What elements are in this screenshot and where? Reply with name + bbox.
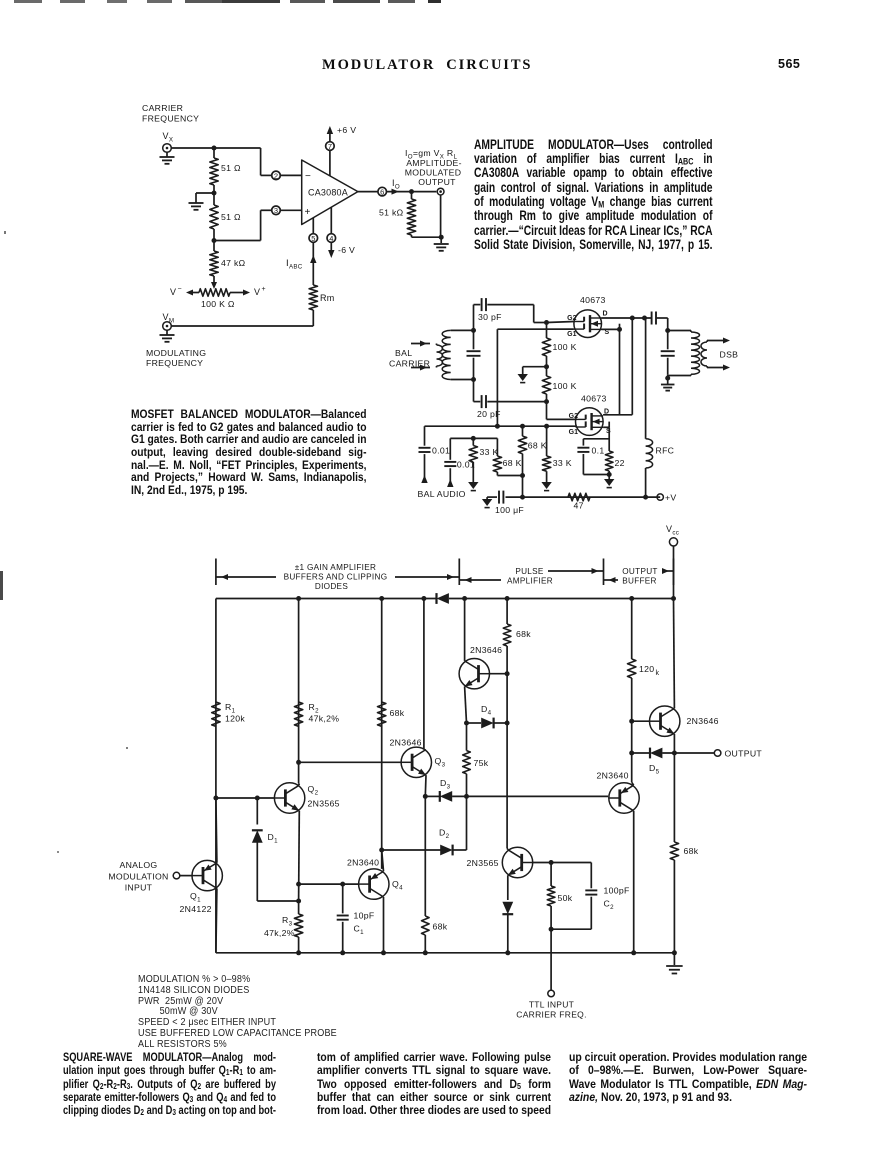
svg-text:D5: D5 xyxy=(649,763,660,775)
svg-text:C1: C1 xyxy=(354,924,365,936)
svg-text:47k,2%: 47k,2% xyxy=(309,714,340,724)
svg-text:50k: 50k xyxy=(558,893,573,903)
svg-text:0.1: 0.1 xyxy=(592,446,605,456)
svg-text:Q4: Q4 xyxy=(392,879,403,891)
svg-text:68k: 68k xyxy=(516,629,531,639)
svg-text:40673: 40673 xyxy=(581,394,607,404)
svg-text:OUTPUT: OUTPUT xyxy=(725,749,763,759)
svg-text:Q2: Q2 xyxy=(308,784,319,796)
svg-text:MODULATION: MODULATION xyxy=(108,871,168,881)
svg-text:4: 4 xyxy=(329,234,333,243)
svg-text:2N3640: 2N3640 xyxy=(347,858,379,868)
svg-text:2N3640: 2N3640 xyxy=(597,771,629,781)
svg-text:CARRIER FREQ.: CARRIER FREQ. xyxy=(516,1010,587,1020)
svg-text:OUTPUT: OUTPUT xyxy=(622,567,657,576)
svg-text:FREQUENCY: FREQUENCY xyxy=(142,114,199,124)
svg-text:OUTPUT: OUTPUT xyxy=(418,177,456,187)
svg-text:68k: 68k xyxy=(390,708,405,718)
svg-text:68 K: 68 K xyxy=(503,458,522,468)
svg-text:Q1: Q1 xyxy=(190,891,201,903)
svg-text:IABC: IABC xyxy=(286,258,303,270)
svg-text:RFC: RFC xyxy=(656,446,675,456)
svg-text:D2: D2 xyxy=(439,828,450,840)
svg-text:G1: G1 xyxy=(569,429,578,436)
svg-text:−: − xyxy=(178,286,182,293)
svg-text:D4: D4 xyxy=(481,704,492,716)
svg-text:51 Ω: 51 Ω xyxy=(221,212,241,222)
svg-text:PULSE: PULSE xyxy=(515,567,544,576)
svg-text:MODULATING: MODULATING xyxy=(146,348,206,358)
svg-text:2N3565: 2N3565 xyxy=(467,858,499,868)
svg-text:BUFFER: BUFFER xyxy=(622,577,657,586)
svg-text:47k,2%: 47k,2% xyxy=(264,928,295,938)
svg-text:+V: +V xyxy=(665,492,676,502)
svg-text:VX: VX xyxy=(163,131,174,143)
svg-text:DSB: DSB xyxy=(720,350,739,360)
svg-text:D: D xyxy=(603,311,608,318)
svg-text:k: k xyxy=(656,670,660,677)
svg-text:100 μF: 100 μF xyxy=(495,505,524,515)
svg-text:-6 V: -6 V xyxy=(338,245,355,255)
svg-text:120k: 120k xyxy=(225,714,245,724)
svg-text:+6 V: +6 V xyxy=(337,125,356,135)
svg-text:G1: G1 xyxy=(567,331,576,338)
svg-text:0.01: 0.01 xyxy=(432,446,450,456)
svg-text:Rm: Rm xyxy=(320,293,335,303)
svg-text:2N3565: 2N3565 xyxy=(308,799,340,809)
svg-text:AMPLITUDE-: AMPLITUDE- xyxy=(406,158,462,168)
svg-text:Vcc: Vcc xyxy=(666,524,679,536)
svg-text:2: 2 xyxy=(274,171,278,180)
svg-text:Q3: Q3 xyxy=(435,756,446,768)
svg-text:V: V xyxy=(254,287,260,297)
svg-text:5: 5 xyxy=(311,234,315,243)
svg-text:V: V xyxy=(170,287,176,297)
svg-text:C2: C2 xyxy=(604,899,615,911)
svg-text:INPUT: INPUT xyxy=(125,883,153,893)
svg-text:IO: IO xyxy=(392,178,400,190)
svg-text:−: − xyxy=(305,171,311,182)
svg-text:100 K Ω: 100 K Ω xyxy=(201,299,235,309)
svg-text:6: 6 xyxy=(380,188,384,197)
svg-text:40673: 40673 xyxy=(580,295,606,305)
svg-text:DIODES: DIODES xyxy=(315,582,348,591)
svg-text:33 K: 33 K xyxy=(480,447,499,457)
svg-text:ANALOG: ANALOG xyxy=(119,860,157,870)
svg-text:100 K: 100 K xyxy=(553,381,577,391)
svg-text:BAL: BAL xyxy=(395,348,412,358)
svg-text:±1 GAIN AMPLIFIER: ±1 GAIN AMPLIFIER xyxy=(295,563,376,572)
svg-text:MODULATED: MODULATED xyxy=(405,168,462,178)
svg-text:22: 22 xyxy=(615,458,625,468)
svg-text:100 K: 100 K xyxy=(553,342,577,352)
svg-text:AMPLIFIER: AMPLIFIER xyxy=(507,577,553,586)
svg-text:+: + xyxy=(262,286,266,293)
svg-text:75k: 75k xyxy=(474,758,489,768)
svg-text:51 kΩ: 51 kΩ xyxy=(379,208,404,218)
svg-text:CA3080A: CA3080A xyxy=(308,188,348,198)
svg-text:47: 47 xyxy=(574,501,584,511)
svg-text:D1: D1 xyxy=(268,832,279,844)
svg-text:3: 3 xyxy=(274,206,278,215)
svg-text:68k: 68k xyxy=(433,922,448,932)
svg-text:CARRIER: CARRIER xyxy=(142,103,183,113)
svg-text:68k: 68k xyxy=(684,846,699,856)
svg-text:BUFFERS AND CLIPPING: BUFFERS AND CLIPPING xyxy=(284,573,388,582)
svg-text:D3: D3 xyxy=(440,778,451,790)
svg-text:100pF: 100pF xyxy=(604,886,630,896)
svg-text:2N3646: 2N3646 xyxy=(470,645,502,655)
svg-text:2N3646: 2N3646 xyxy=(390,738,422,748)
svg-text:7: 7 xyxy=(328,142,332,151)
svg-text:R3: R3 xyxy=(282,915,293,927)
svg-text:2N4122: 2N4122 xyxy=(180,904,212,914)
svg-text:68 K: 68 K xyxy=(528,441,547,451)
svg-text:2N3646: 2N3646 xyxy=(687,716,719,726)
svg-text:120: 120 xyxy=(639,664,654,674)
svg-text:BAL AUDIO: BAL AUDIO xyxy=(418,489,466,499)
svg-text:47 kΩ: 47 kΩ xyxy=(221,258,246,268)
svg-text:51 Ω: 51 Ω xyxy=(221,163,241,173)
svg-text:FREQUENCY: FREQUENCY xyxy=(146,358,203,368)
svg-text:+: + xyxy=(305,207,311,218)
svg-text:30 pF: 30 pF xyxy=(478,312,502,322)
svg-text:33 K: 33 K xyxy=(553,458,572,468)
svg-text:10pF: 10pF xyxy=(354,911,375,921)
svg-text:TTL INPUT: TTL INPUT xyxy=(529,1000,574,1010)
